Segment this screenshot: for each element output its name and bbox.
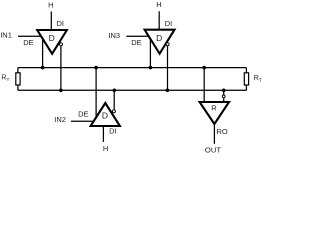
wire: IN2 DI lead to H bbox=[102, 127, 104, 142]
svg-text:H: H bbox=[103, 144, 108, 153]
svg-text:DI: DI bbox=[109, 126, 117, 135]
svg-text:DI: DI bbox=[165, 19, 173, 28]
junction: driver3 A / top bus bbox=[149, 66, 153, 70]
driver D2 inversion bubble (output B) bbox=[112, 110, 115, 113]
driver D1 inversion bubble (output B) bbox=[60, 43, 63, 46]
svg-text:RT: RT bbox=[254, 75, 262, 84]
junction: driver2 B / bottom bus bbox=[113, 89, 117, 93]
svg-text:H: H bbox=[156, 0, 161, 9]
wire: right RT top lead bbox=[245, 68, 247, 74]
driver D2 (IN2) triangle bbox=[91, 103, 120, 126]
wire: IN1 DI lead from H bbox=[50, 12, 52, 30]
driver D3 (IN3) triangle bbox=[145, 30, 175, 54]
resistor RT (right termination) bbox=[244, 73, 248, 85]
svg-text:D: D bbox=[102, 110, 108, 120]
receiver R triangle bbox=[200, 102, 229, 124]
svg-text:D: D bbox=[156, 33, 162, 43]
svg-text:IN2: IN2 bbox=[54, 115, 66, 124]
svg-text:OUT: OUT bbox=[205, 146, 222, 155]
junction: driver3 B / bottom bus bbox=[166, 89, 170, 93]
svg-text:DE: DE bbox=[23, 38, 33, 47]
junction: driver1 B / bottom bus bbox=[59, 89, 63, 93]
svg-text:IN3: IN3 bbox=[108, 31, 120, 40]
wire: receiver input A from top bus bbox=[203, 68, 205, 102]
wire: IN3 DE lead bbox=[126, 35, 148, 37]
driver D1 (IN1) triangle bbox=[37, 30, 67, 54]
wire: right RT bottom lead bbox=[245, 85, 247, 91]
wire: driver1 output A to top bus bbox=[42, 38, 44, 67]
wire: IN1 DE lead bbox=[18, 35, 41, 37]
junction: driver1 A / top bus bbox=[41, 66, 45, 70]
wire: left RT bottom lead bbox=[17, 85, 19, 91]
receiver inversion bubble (input B) bbox=[222, 95, 225, 98]
wire: driver3 output B (from bubble) to bottom bus bbox=[167, 46, 169, 90]
wire: driver2 output A to top bus bbox=[95, 68, 97, 118]
wire: receiver input B from bottom bus (through bubble) bbox=[223, 90, 225, 101]
wire: receiver RO output lead bbox=[213, 124, 215, 144]
driver D3 inversion bubble (output B) bbox=[166, 43, 169, 46]
svg-text:D: D bbox=[49, 33, 55, 43]
svg-text:H: H bbox=[48, 0, 53, 9]
junction: receiver A / top bus bbox=[202, 66, 206, 70]
svg-text:RO: RO bbox=[217, 127, 228, 136]
svg-text:IN1: IN1 bbox=[0, 30, 12, 39]
wire: IN3 DI lead from H bbox=[158, 11, 160, 29]
junction: driver2 A / top bus bbox=[94, 66, 98, 70]
svg-text:DE: DE bbox=[131, 38, 141, 47]
svg-text:DE: DE bbox=[78, 109, 88, 118]
wire: top bus line (A) bbox=[18, 67, 247, 69]
junction: receiver B / bottom bus bbox=[222, 89, 226, 93]
wire: left RT top lead bbox=[17, 68, 19, 74]
wire: IN2 DE lead bbox=[71, 120, 94, 122]
resistor RT (left termination) bbox=[16, 73, 20, 85]
wire: bottom bus line (B) bbox=[18, 89, 247, 91]
wire: driver1 output B (from bubble) to bottom bus bbox=[60, 46, 62, 90]
svg-text:RT: RT bbox=[1, 75, 9, 84]
svg-text:R: R bbox=[211, 103, 217, 112]
svg-text:DI: DI bbox=[57, 19, 65, 28]
wire: driver2 output B (from bubble) to bottom bus bbox=[113, 90, 115, 109]
wire: driver3 output A to top bus bbox=[149, 38, 151, 68]
